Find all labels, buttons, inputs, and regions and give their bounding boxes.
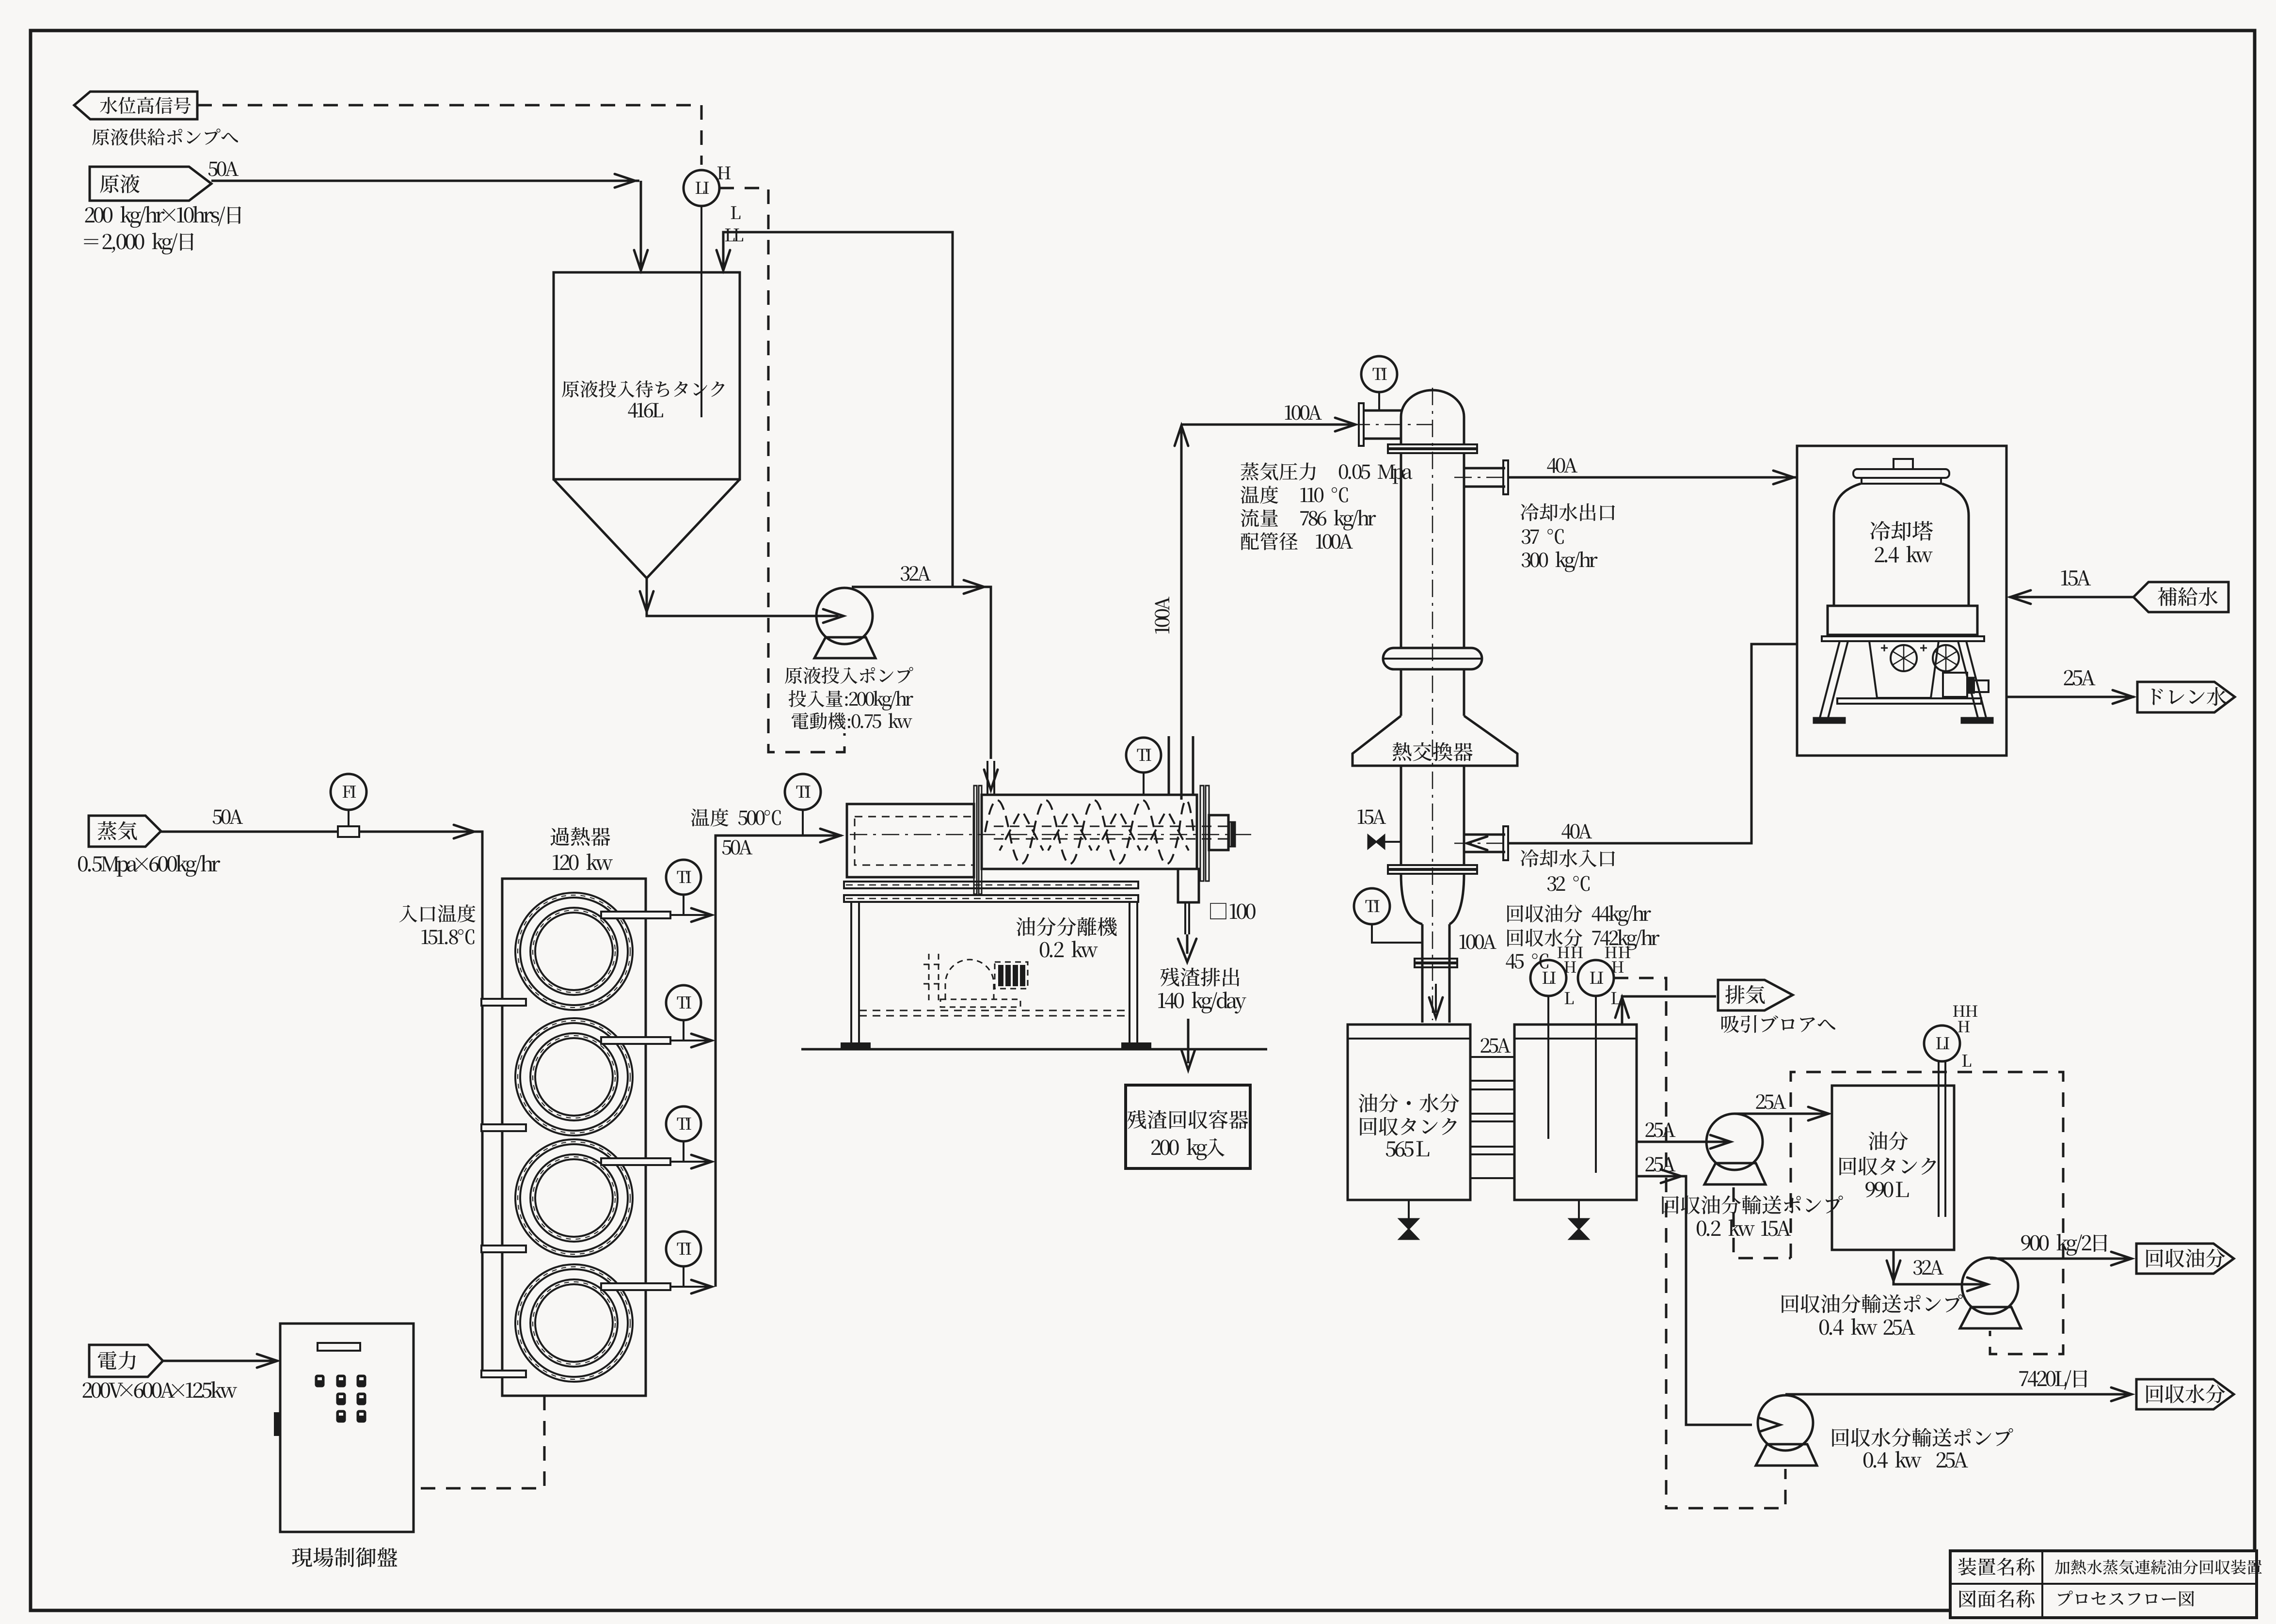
instrument LI-4 tank T4 level (1924, 1025, 1960, 1061)
label 15A makeup (2061, 570, 2091, 586)
wire P1 discharge 32A to separator (852, 587, 991, 759)
label 原液投入ポンプ (785, 667, 913, 684)
instrument LI-2 tank level (1530, 960, 1566, 996)
ground line (801, 1048, 1267, 1051)
label 温度 110 ℃ (1241, 486, 1278, 504)
wire dashed LI-1 interlock to pump P1 (719, 188, 844, 752)
heater coil 3 (515, 1139, 633, 1257)
separator stand beams (844, 882, 1138, 888)
separator screw helix (985, 800, 1194, 864)
residue discharge arrow (1184, 902, 1186, 934)
instrument LI-3 tank level (1578, 960, 1614, 996)
instrument TI coil 4 (666, 1231, 701, 1266)
tank T1 funnel bottom (554, 479, 740, 578)
heater coil 2 (515, 1018, 633, 1135)
cooling tower enclosure box (1797, 446, 2006, 756)
separator left flange (974, 786, 977, 894)
label 900 kg/2日 (2021, 1234, 2107, 1256)
cooling tower fan 2 (1933, 645, 1959, 671)
separator stand shelf dashed (859, 1010, 1130, 1011)
cooling tower sump (1869, 641, 1939, 698)
instrument LI-1 (tank level) (684, 170, 719, 206)
cooling tower barrel (1834, 484, 1861, 606)
separator stand legs (850, 902, 852, 1043)
flag 排気 (exhaust) (1718, 980, 1793, 1010)
label □100 (1210, 903, 1256, 919)
cooling tower legs (1819, 641, 1840, 720)
column bottom dome (1401, 874, 1422, 924)
wire dashed 水位高信号 to LI-1 (197, 105, 701, 165)
title block table (1950, 1551, 2257, 1618)
label 2.4 kw (1875, 546, 1933, 563)
valve 15A drain (1384, 841, 1401, 843)
wire 原液 50A to tank T1 (211, 180, 639, 182)
separator stand feet (842, 1043, 870, 1049)
cooling tower bottom bar (1837, 698, 1981, 704)
tank T4 油分回収タンク (1832, 1086, 1954, 1250)
label 0.2 kw 15A (1697, 1219, 1791, 1236)
tank T1 原液投入待ちタンク body (554, 272, 740, 479)
label 配管径 100A (1241, 532, 1298, 550)
flag 電力 (power inlet) (89, 1345, 163, 1377)
separator drive pump sketch (dashed) (929, 954, 939, 1001)
flag 補給水 (makeup water) (2133, 582, 2228, 612)
label 40A in (1561, 824, 1592, 839)
flag ドレン水 (drain water) (2137, 682, 2235, 712)
wire coil 3 outlet to 50A header (670, 1161, 713, 1163)
wire 50A superheated steam header to separator (716, 836, 842, 1287)
label LL (725, 229, 743, 241)
cooling tower cap (1894, 459, 1913, 469)
label 残渣排出 (1160, 968, 1239, 987)
wire 補給水 15A (2009, 596, 2133, 599)
label 図面名称 (1959, 1590, 2035, 1608)
instrument TI separator (1126, 738, 1161, 773)
label H (717, 167, 731, 179)
instrument TI column bottom (1354, 888, 1390, 924)
cooling tower feet (1814, 718, 1845, 723)
wire 40A to cooling tower (1508, 476, 1797, 479)
tank T2 油分・水分回収タンク (1348, 1025, 1470, 1200)
label 蒸気圧力 0.05 Mpa (1241, 462, 1316, 480)
label 200V×600A×125kw (83, 1381, 237, 1398)
label 温度 500℃ (691, 808, 780, 826)
wire dashed superheater to control panel (414, 1396, 544, 1488)
heater coil 4 (515, 1264, 633, 1382)
label 熱交換器 (1393, 742, 1473, 761)
label 回収油分輸送ポンプ (1662, 1196, 1843, 1214)
wire dashed P2 interlock (1734, 1187, 1791, 1258)
cooling tower lid (1853, 469, 1949, 478)
instrument TI coil 3 (666, 1106, 701, 1141)
label 100A horizontal (1285, 405, 1322, 420)
label 300 kg/hr (1522, 552, 1598, 572)
label 0.2 kw (1040, 941, 1098, 958)
panel display window (318, 1343, 360, 1351)
separator centerline (850, 834, 1252, 836)
label 32A outlet (1913, 1260, 1943, 1275)
coil 3 outlet tube (601, 1158, 670, 1165)
label 40A out (1547, 458, 1577, 473)
container 残渣回収容器 box (1126, 1085, 1250, 1168)
column bottom flange (1388, 865, 1477, 869)
bolt marks (1881, 645, 1927, 651)
label 回収水分輸送ポンプ (1832, 1428, 2013, 1447)
wire P2 discharge 25A to tank T4 (1735, 1113, 1827, 1115)
label 入口温度 (399, 904, 476, 922)
panel buttons (316, 1375, 324, 1387)
coil 2 inlet tube (481, 1124, 526, 1131)
coil 4 inlet tube (481, 1371, 526, 1377)
label L (731, 206, 741, 219)
coil 4 outlet tube (601, 1283, 670, 1290)
column outlet nozzle 40A (cooling water out) (1464, 467, 1505, 470)
wire coil 4 outlet to 50A header (670, 1286, 713, 1288)
label 0.4 kw 25A water (1863, 1451, 1968, 1468)
column mid flange bulge (1383, 648, 1482, 669)
column shell lower (1400, 766, 1402, 865)
wire dashed LI-3 interlock to pump P4 (1614, 978, 1785, 1508)
label 回収水分 742kg/hr (1507, 929, 1659, 950)
coil 1 outlet tube (601, 912, 670, 918)
flag 水位高信号 (high level signal out) (74, 92, 197, 119)
vent line to 排気 (1622, 996, 1716, 1025)
instrument TI coil 2 (666, 985, 701, 1020)
label 0.4 kw 25A oil (1819, 1318, 1915, 1335)
separator top feed nozzle 32A (987, 761, 988, 795)
label 過熱器 (550, 827, 610, 846)
label 原液供給ポンプへ (92, 128, 238, 145)
label 回収油分輸送ポンプ 0.4 (1782, 1294, 1962, 1313)
label 140 kg/day (1158, 992, 1246, 1013)
wire T4 outlet 32A to pump P3 (1894, 1250, 1987, 1284)
cooling tower basin (1828, 606, 1977, 635)
separator bearing housing (1209, 815, 1228, 850)
separator drum (982, 795, 1197, 869)
flag 蒸気 (steam inlet) (89, 816, 161, 847)
label 151.8℃ (422, 929, 475, 944)
flag 原液 (raw liquid inlet) (90, 167, 211, 201)
instrument FI (flow indicator) (331, 774, 366, 810)
label 50A steam (213, 809, 243, 824)
orifice on steam line (338, 826, 359, 837)
cooling tower pump block (1943, 673, 1967, 697)
label 25A interconnect (1481, 1038, 1511, 1053)
wire 25A to oil pump P2 (1637, 1141, 1702, 1143)
column support skirt (1353, 716, 1517, 766)
superheater 過熱器 box (502, 879, 646, 1396)
label 200 kg/hr×10hrs/日 (85, 206, 241, 228)
label 流量 786 kg/hr (1241, 509, 1278, 527)
column inlet nozzle flange (1359, 403, 1364, 446)
label 45 ℃ (1506, 953, 1548, 968)
label 油分分離機 (1016, 917, 1116, 936)
instrument TI column top (1361, 356, 1397, 392)
flag 回収水分 (recovered water out) (2136, 1379, 2234, 1409)
wire dashed interlock box around tank T4 (1791, 1072, 2063, 1354)
wire 40A from cooling tower (1508, 644, 1797, 843)
pump P3 回収油分輸送ポンプ 0.4kw (1962, 1258, 2018, 1314)
wire ドレン水 25A (2006, 696, 2134, 698)
wire P4 discharge to 回収水分 (1785, 1393, 2131, 1396)
label 100A vertical (1155, 597, 1169, 633)
label 25A drain (2064, 670, 2096, 686)
instrument TI coil 1 (666, 860, 701, 895)
separator shaft dashed lines (994, 826, 1229, 827)
instrument TI separator inlet (785, 774, 821, 810)
label 現場制御盤 (292, 1547, 397, 1567)
wire LL overflow return to tank T1 (723, 232, 953, 586)
label 15A valve (1358, 809, 1386, 824)
drain valve tank T3 (1578, 1200, 1580, 1219)
label 25A P2 discharge (1756, 1094, 1786, 1109)
label 加熱水蒸気連続油分回収装置 (2055, 1560, 2262, 1575)
wire power to panel (163, 1360, 276, 1362)
column bottom outlet pipe 100A (1421, 924, 1424, 1023)
flag 回収油分 (recovered oil out) (2136, 1244, 2234, 1274)
pump P1 原液投入ポンプ (816, 588, 873, 644)
column top flange (1388, 444, 1477, 448)
label ＝2,000 kg/日 (84, 233, 193, 254)
drain valve tank T2 (1408, 1200, 1410, 1219)
cooling tower fan 1 (1891, 645, 1917, 671)
wire steam 50A to superheater (161, 832, 482, 1374)
label 32 ℃ (1547, 876, 1590, 891)
heater coil 1 (515, 893, 633, 1010)
control panel 現場制御盤 box (280, 1324, 414, 1532)
separator right flange (1200, 786, 1204, 881)
label 25A water (1646, 1157, 1676, 1171)
label 32A (901, 566, 931, 581)
coil 2 outlet tube (601, 1037, 670, 1044)
label 50A (208, 161, 239, 176)
coil 3 inlet tube (481, 1246, 526, 1252)
label 電動機:0.75 kw (792, 712, 912, 729)
label 7420L/日 (2019, 1370, 2087, 1390)
panel hinge (274, 1413, 280, 1435)
label 冷却塔 (1870, 521, 1933, 541)
label 装置名称 (1958, 1558, 2034, 1576)
label 投入量:200kg/hr (789, 690, 913, 710)
wire P3 discharge to 回収油分 (1990, 1258, 2131, 1260)
column top dome (1401, 390, 1464, 444)
label 37 ℃ (1522, 529, 1564, 544)
label 吸引ブロアへ (1721, 1015, 1835, 1033)
wire tank T1 outlet to pump P1 (647, 578, 839, 616)
label 冷却水入口 (1521, 849, 1615, 867)
LI-4 dip tube (1938, 1061, 1940, 1217)
label 原液投入待ちタンク (562, 380, 724, 397)
label 回収油分 44kg/hr (1507, 904, 1651, 926)
column inlet nozzle 40A (cooling water in) (1464, 834, 1505, 836)
separator vapor outlet pipe 100A (1168, 736, 1170, 795)
separator inlet jacket box (847, 804, 974, 877)
pump P2 回収油分輸送ポンプ (1706, 1114, 1763, 1170)
residue arrow to container (1187, 1019, 1190, 1063)
label 120 kw (553, 853, 613, 870)
wire coil 2 outlet to 50A header (670, 1040, 713, 1041)
label 100A bottom (1460, 934, 1496, 949)
pump P4 回収水分輸送ポンプ (1758, 1395, 1813, 1451)
column shell upper (1400, 453, 1402, 648)
label 冷却水出口 (1521, 503, 1615, 521)
tank interconnect pipes 25A (1470, 1056, 1514, 1058)
label 50A header (722, 840, 752, 854)
column centerline (1432, 388, 1433, 1020)
label 0.5Mpa×600kg/hr (78, 855, 220, 877)
wire 25A water outlet down to pump P4 (1637, 1176, 1752, 1425)
wire coil 1 outlet to 50A header (670, 914, 713, 916)
label 416L (628, 403, 663, 418)
cooling tower base plate (1822, 636, 1984, 641)
wire 100A vapor riser to heat exchanger (1180, 426, 1183, 800)
column shell mid (1400, 669, 1402, 716)
label プロセスフロー図 (2058, 1591, 2194, 1607)
separator residue chute (1178, 869, 1199, 902)
tank T3 separation tank (1514, 1025, 1637, 1200)
coil 1 inlet tube (481, 999, 526, 1006)
label 25A suction (1646, 1122, 1676, 1137)
